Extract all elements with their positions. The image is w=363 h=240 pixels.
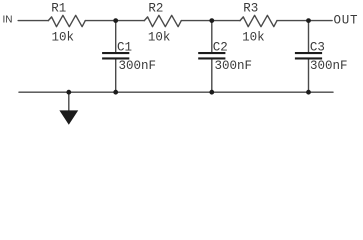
svg-text:C2: C2 <box>213 40 228 54</box>
wire ground stub <box>68 92 70 111</box>
wire R2 to node B <box>181 20 212 22</box>
svg-text:C1: C1 <box>117 40 132 54</box>
wire node C down to C3 <box>308 21 310 52</box>
resistor R1 <box>48 15 85 26</box>
junction dot C1 to rail <box>113 90 118 95</box>
wire node A to R2 <box>116 20 145 22</box>
svg-text:10k: 10k <box>148 31 171 45</box>
wire node B to R3 <box>212 20 240 22</box>
junction dot C2 to rail <box>209 90 214 95</box>
wire C2 to ground rail <box>211 60 213 93</box>
svg-text:300nF: 300nF <box>119 59 157 73</box>
svg-text:300nF: 300nF <box>215 59 253 73</box>
capacitor C3 top plate <box>295 52 322 54</box>
wire IN to R1 <box>18 20 48 22</box>
junction dot ground stub <box>66 90 71 95</box>
svg-text:10k: 10k <box>242 31 265 45</box>
svg-text:R3: R3 <box>243 2 258 16</box>
wire node C to OUT <box>309 20 333 22</box>
capacitor C1 top plate <box>102 52 129 54</box>
svg-text:R2: R2 <box>148 2 163 16</box>
svg-text:OUT: OUT <box>334 14 359 28</box>
wire R1 to node A <box>85 20 115 22</box>
capacitor C2 top plate <box>198 52 225 54</box>
svg-text:C3: C3 <box>310 40 325 54</box>
capacitor C2 bottom plate <box>198 57 225 59</box>
wire C1 to ground rail <box>115 60 117 93</box>
resistor R3 <box>240 15 277 26</box>
wire node B down to C2 <box>211 21 213 52</box>
wire C3 to ground rail <box>308 60 310 93</box>
svg-text:300nF: 300nF <box>310 59 348 73</box>
node B junction dot <box>209 18 214 23</box>
resistor R2 <box>144 15 181 26</box>
wire node A down to C1 <box>115 21 117 52</box>
capacitor C1 bottom plate <box>102 57 129 59</box>
node A junction dot <box>113 18 118 23</box>
ground rail wire <box>19 91 333 93</box>
wire R3 to node C <box>277 20 309 22</box>
junction dot C3 to rail <box>306 90 311 95</box>
ground symbol triangle <box>59 110 78 124</box>
capacitor C3 bottom plate <box>295 57 322 59</box>
node C junction dot <box>306 18 311 23</box>
svg-text:IN: IN <box>3 15 13 26</box>
svg-text:10k: 10k <box>52 31 75 45</box>
svg-text:R1: R1 <box>51 2 66 16</box>
